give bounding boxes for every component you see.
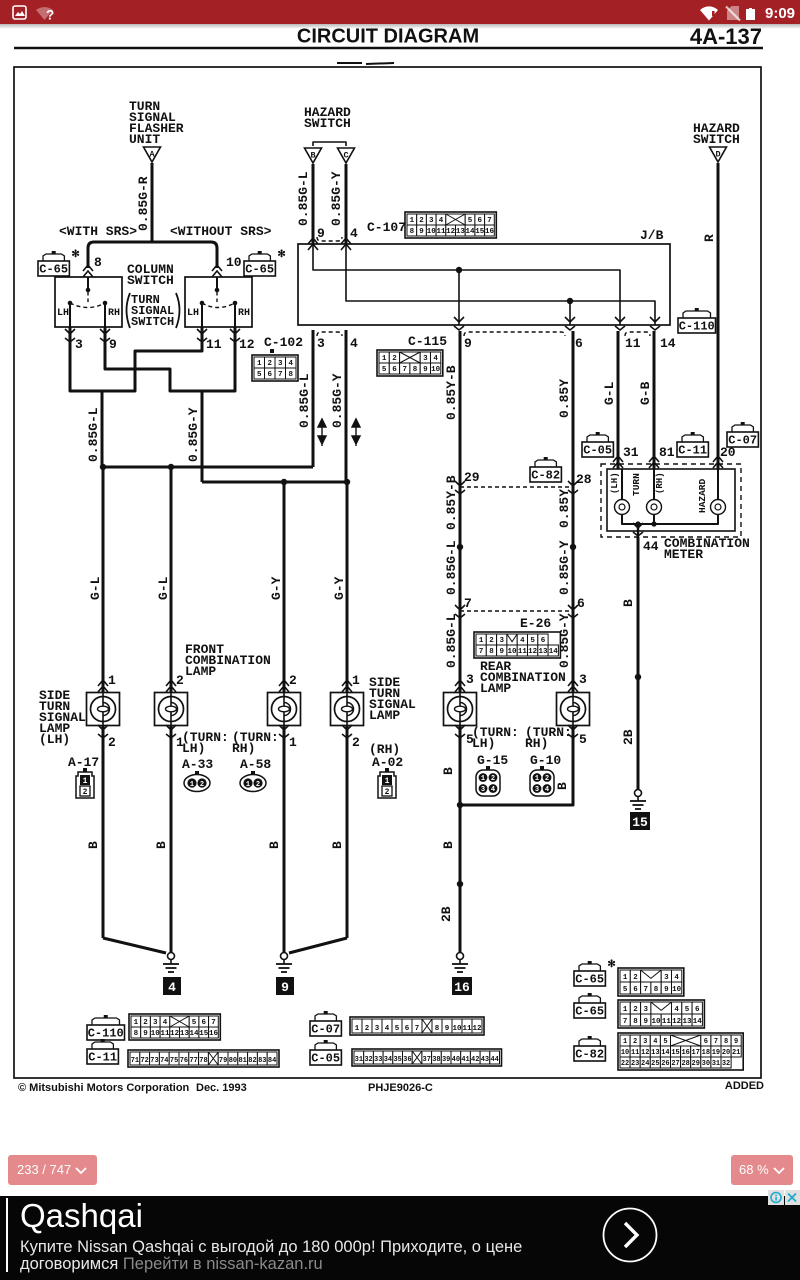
svg-text:26: 26 <box>661 1060 669 1068</box>
svg-text:37: 37 <box>423 1056 431 1064</box>
svg-text:2: 2 <box>176 673 184 688</box>
svg-text:10: 10 <box>431 366 441 374</box>
svg-text:6: 6 <box>267 371 272 379</box>
svg-text:1: 1 <box>257 360 262 368</box>
svg-text:5: 5 <box>685 1006 690 1014</box>
svg-text:11: 11 <box>436 228 446 236</box>
svg-text:METER: METER <box>664 547 703 562</box>
svg-text:1: 1 <box>289 735 297 750</box>
svg-text:3: 3 <box>535 786 539 794</box>
svg-text:E-26: E-26 <box>520 616 551 631</box>
svg-text:4: 4 <box>350 336 358 351</box>
svg-text:15: 15 <box>475 228 485 236</box>
svg-text:5: 5 <box>530 637 535 645</box>
svg-text:81: 81 <box>659 445 675 460</box>
svg-text:C-11: C-11 <box>678 444 707 458</box>
continuation arrows <box>318 419 326 446</box>
svg-text:LH: LH <box>57 308 69 319</box>
dashed E-26 line <box>460 610 573 612</box>
J/B exit 9 <box>458 270 460 325</box>
svg-text:0.85G-L: 0.85G-L <box>297 373 312 428</box>
svg-text:0.85G-Y: 0.85G-Y <box>557 540 572 595</box>
svg-text:6: 6 <box>477 217 482 225</box>
svg-text:SWITCH: SWITCH <box>693 132 740 147</box>
svg-text:2: 2 <box>489 637 494 645</box>
svg-text:12: 12 <box>446 228 456 236</box>
wire B below lamp <box>346 726 349 938</box>
svg-text:RH): RH) <box>232 741 255 756</box>
svg-text:0.85G-L: 0.85G-L <box>444 613 459 668</box>
svg-text:4: 4 <box>520 637 525 645</box>
wire pin11 crossover <box>135 340 202 391</box>
svg-text:LH: LH <box>187 308 199 319</box>
connector C-07 bottom <box>315 1014 336 1021</box>
svg-text:23: 23 <box>631 1060 639 1068</box>
svg-text:40: 40 <box>452 1056 460 1064</box>
svg-text:LH): LH) <box>472 736 495 751</box>
svg-text:ADDED: ADDED <box>725 1080 764 1092</box>
svg-text:1: 1 <box>481 775 485 783</box>
hazard bracket <box>313 142 346 146</box>
connector C-65 left <box>43 254 64 261</box>
svg-text:9: 9 <box>423 366 428 374</box>
svg-text:19: 19 <box>712 1049 720 1057</box>
svg-text:38: 38 <box>432 1056 440 1064</box>
wire B to ground 16 <box>459 805 462 953</box>
svg-text:3: 3 <box>643 1006 648 1014</box>
svg-text:12: 12 <box>641 1049 649 1057</box>
svg-text:29: 29 <box>692 1060 700 1068</box>
svg-text:<WITH SRS>: <WITH SRS> <box>59 224 137 239</box>
svg-text:10: 10 <box>226 255 242 270</box>
front lamp at x=347 <box>342 680 352 692</box>
wire G-L front <box>170 467 173 692</box>
switch pin 11 <box>201 327 204 340</box>
svg-text:3: 3 <box>278 360 283 368</box>
svg-text:12: 12 <box>170 1030 180 1038</box>
svg-text:G-Y: G-Y <box>269 576 284 600</box>
svg-text:10: 10 <box>452 1025 462 1033</box>
svg-text:74: 74 <box>160 1057 168 1065</box>
svg-text:71: 71 <box>131 1057 139 1065</box>
svg-text:31: 31 <box>623 445 639 460</box>
svg-text:C-07: C-07 <box>728 434 757 448</box>
svg-text:4: 4 <box>288 360 293 368</box>
left merge bracket <box>70 388 135 391</box>
meter lamp hazard <box>717 469 719 500</box>
svg-text:SWITCH: SWITCH <box>127 273 174 288</box>
svg-text:C-110: C-110 <box>679 320 715 334</box>
svg-text:15: 15 <box>199 1030 209 1038</box>
svg-text:14: 14 <box>661 1049 669 1057</box>
ad arrow button <box>598 1203 662 1267</box>
svg-text:14: 14 <box>693 1018 703 1026</box>
svg-text:2: 2 <box>491 775 495 783</box>
svg-text:6: 6 <box>201 1019 206 1027</box>
wire pin12 down <box>234 340 237 391</box>
svg-text:2: 2 <box>352 735 360 750</box>
svg-text:15: 15 <box>671 1049 679 1057</box>
svg-text:6: 6 <box>695 1006 700 1014</box>
front lamp at x=171 <box>166 680 176 692</box>
svg-text:B: B <box>330 841 345 849</box>
svg-text:✻: ✻ <box>71 249 79 261</box>
svg-text:RH: RH <box>238 308 250 319</box>
right merge bracket <box>170 388 235 391</box>
wire G-Y front <box>346 482 349 692</box>
svg-text:2B: 2B <box>621 729 636 745</box>
svg-text:3: 3 <box>317 336 325 351</box>
svg-text:2: 2 <box>365 1025 370 1033</box>
svg-text:5: 5 <box>468 217 473 225</box>
svg-text:A-17: A-17 <box>68 755 99 770</box>
wire G-L front <box>102 467 105 692</box>
svg-text:A: A <box>149 150 155 160</box>
connector C-65 bottom 1 <box>579 964 600 971</box>
connector C-65 bottom 2 <box>579 996 600 1003</box>
svg-text:0.85Y-B: 0.85Y-B <box>444 365 459 420</box>
svg-text:28: 28 <box>681 1060 689 1068</box>
svg-text:8: 8 <box>489 648 494 656</box>
svg-text:4: 4 <box>385 1025 390 1033</box>
svg-text:3: 3 <box>153 1019 158 1027</box>
wifi alert icon <box>700 6 718 20</box>
svg-text:C-115: C-115 <box>408 334 447 349</box>
svg-text:2B: 2B <box>439 906 454 922</box>
rear lamp at x=460 <box>455 680 465 692</box>
svg-text:2: 2 <box>267 360 272 368</box>
svg-text:3: 3 <box>481 786 485 794</box>
svg-text:HAZARD: HAZARD <box>697 478 708 513</box>
svg-text:B: B <box>154 841 169 849</box>
connector C-82 <box>535 460 556 467</box>
svg-text:0.85G-Y: 0.85G-Y <box>186 407 201 462</box>
svg-text:6: 6 <box>577 596 585 611</box>
svg-text:CIRCUIT DIAGRAM: CIRCUIT DIAGRAM <box>297 26 479 48</box>
svg-text:LAMP: LAMP <box>369 708 400 723</box>
battery icon <box>749 8 752 10</box>
svg-text:0.85Y: 0.85Y <box>557 489 572 528</box>
svg-text:7: 7 <box>278 371 283 379</box>
svg-text:77: 77 <box>189 1057 197 1065</box>
connector C-82 bottom <box>579 1039 600 1046</box>
svg-text:34: 34 <box>384 1056 392 1064</box>
svg-text:C-05: C-05 <box>311 1052 340 1066</box>
svg-text:41: 41 <box>461 1056 469 1064</box>
page nav chip left <box>8 1155 97 1185</box>
svg-text:0.85G-Y: 0.85G-Y <box>329 171 344 226</box>
flasher unit pin A <box>144 147 161 162</box>
column switch (without SRS) <box>185 277 252 327</box>
svg-text:4: 4 <box>653 1038 657 1046</box>
svg-text:8: 8 <box>654 986 659 994</box>
svg-text:2: 2 <box>289 673 297 688</box>
svg-text:LAMP: LAMP <box>185 664 216 679</box>
wire 0.85G-R from flasher A <box>151 163 154 242</box>
svg-text:2: 2 <box>108 735 116 750</box>
wire G-Y front <box>283 482 286 692</box>
svg-text:5: 5 <box>623 986 628 994</box>
svg-text:12: 12 <box>472 1025 482 1033</box>
svg-text:14: 14 <box>549 648 559 656</box>
svg-text:11: 11 <box>518 648 528 656</box>
svg-text:1: 1 <box>83 777 88 786</box>
svg-text:<WITHOUT SRS>: <WITHOUT SRS> <box>170 224 272 239</box>
svg-text:14: 14 <box>660 336 676 351</box>
svg-text:10: 10 <box>672 986 682 994</box>
svg-text:0.85G-Y: 0.85G-Y <box>330 373 345 428</box>
svg-text:9: 9 <box>464 336 472 351</box>
svg-text:3: 3 <box>75 337 83 352</box>
svg-text:3: 3 <box>643 1038 647 1046</box>
svg-text:8: 8 <box>413 366 418 374</box>
svg-text:B: B <box>86 841 101 849</box>
svg-text:C-65: C-65 <box>245 263 274 277</box>
svg-text:G-L: G-L <box>602 381 617 405</box>
svg-text:10: 10 <box>427 228 437 236</box>
wifi question icon <box>36 7 53 20</box>
svg-text:1: 1 <box>355 1025 360 1033</box>
svg-text:D: D <box>715 150 720 160</box>
svg-text:C-110: C-110 <box>88 1027 124 1041</box>
svg-text:10: 10 <box>621 1049 629 1057</box>
svg-text:1: 1 <box>623 1038 627 1046</box>
svg-text:7: 7 <box>415 1025 420 1033</box>
svg-text:(LH): (LH) <box>610 472 620 494</box>
zoom chip right <box>731 1155 793 1185</box>
wire G-L pin11 <box>617 331 620 469</box>
svg-text:2: 2 <box>633 974 638 982</box>
svg-text:8: 8 <box>134 1030 139 1038</box>
svg-text:13: 13 <box>180 1030 190 1038</box>
hazard pin D <box>710 147 727 162</box>
ad banner <box>0 1196 800 1280</box>
svg-text:84: 84 <box>268 1057 276 1065</box>
svg-text:7: 7 <box>643 986 648 994</box>
svg-text:12: 12 <box>239 337 255 352</box>
wire B below lamp <box>170 726 173 953</box>
svg-text:✻: ✻ <box>607 959 615 971</box>
svg-text:C-82: C-82 <box>575 1048 604 1062</box>
connector C-11 <box>682 435 703 442</box>
svg-text:8: 8 <box>633 1018 638 1026</box>
svg-text:9: 9 <box>109 337 117 352</box>
svg-text:10: 10 <box>151 1030 161 1038</box>
svg-text:6: 6 <box>405 1025 410 1033</box>
connector C-65 right <box>249 254 270 261</box>
wire 0.85G-Y from C <box>345 164 348 244</box>
svg-text:2: 2 <box>633 1038 637 1046</box>
svg-text:G-L: G-L <box>88 576 103 600</box>
svg-text:C-65: C-65 <box>39 263 68 277</box>
page border <box>14 67 761 1078</box>
bracket to column switch <box>88 242 217 268</box>
svg-text:B: B <box>267 841 282 849</box>
rear lamp at x=573 <box>568 680 578 692</box>
ground right front <box>289 938 347 953</box>
svg-text:10: 10 <box>508 648 518 656</box>
svg-text:27: 27 <box>671 1060 679 1068</box>
svg-text:5: 5 <box>257 371 262 379</box>
svg-text:25: 25 <box>651 1060 659 1068</box>
wire B below lamp <box>102 726 105 938</box>
svg-text:7: 7 <box>714 1038 718 1046</box>
svg-text:80: 80 <box>229 1057 237 1065</box>
wire pin9 crossover <box>105 340 170 391</box>
svg-text:75: 75 <box>170 1057 178 1065</box>
svg-text:83: 83 <box>258 1057 266 1065</box>
svg-text:4: 4 <box>674 974 679 982</box>
svg-text:6: 6 <box>704 1038 708 1046</box>
wire B below lamp <box>283 726 286 953</box>
J/B exit 6 <box>569 301 571 325</box>
wire 0.85Y <box>572 331 575 692</box>
svg-text:A-33: A-33 <box>182 757 213 772</box>
svg-text:LAMP: LAMP <box>480 681 511 696</box>
svg-text:11: 11 <box>206 337 222 352</box>
svg-text:B: B <box>441 767 456 775</box>
svg-text:24: 24 <box>641 1060 649 1068</box>
svg-text:C-11: C-11 <box>88 1051 117 1065</box>
svg-text:SWITCH: SWITCH <box>304 116 351 131</box>
svg-text:SWITCH: SWITCH <box>131 315 174 329</box>
svg-text:C-82: C-82 <box>531 469 560 483</box>
no sim icon <box>727 6 739 20</box>
svg-text:3: 3 <box>423 355 428 363</box>
svg-text:12: 12 <box>528 648 538 656</box>
svg-text:3: 3 <box>375 1025 380 1033</box>
svg-text:9: 9 <box>445 1025 450 1033</box>
svg-text:7: 7 <box>402 366 407 374</box>
svg-text:72: 72 <box>140 1057 148 1065</box>
svg-text:2: 2 <box>419 217 424 225</box>
svg-text:1: 1 <box>108 673 116 688</box>
svg-text:16: 16 <box>209 1030 219 1038</box>
svg-text:10: 10 <box>652 1018 662 1026</box>
svg-text:9: 9 <box>317 226 325 241</box>
svg-text:3: 3 <box>664 974 669 982</box>
svg-text:7: 7 <box>464 596 472 611</box>
svg-text:0.85G-L: 0.85G-L <box>444 540 459 595</box>
svg-text:2: 2 <box>545 775 549 783</box>
svg-text:A-58: A-58 <box>240 757 271 772</box>
connector C-11 bottom <box>92 1042 113 1049</box>
svg-text:12: 12 <box>672 1018 682 1026</box>
svg-text:2: 2 <box>633 1006 638 1014</box>
svg-text:1: 1 <box>382 355 387 363</box>
hazard pin B <box>305 148 322 163</box>
svg-text:7: 7 <box>623 1018 628 1026</box>
svg-text:33: 33 <box>374 1056 382 1064</box>
svg-text:✻: ✻ <box>277 249 285 261</box>
svg-text:13: 13 <box>456 228 466 236</box>
svg-text:1: 1 <box>385 777 390 786</box>
svg-text:0.85G-L: 0.85G-L <box>296 171 311 226</box>
svg-text:39: 39 <box>442 1056 450 1064</box>
front lamp at x=284 <box>279 680 289 692</box>
svg-text:11: 11 <box>160 1030 170 1038</box>
svg-text:2: 2 <box>385 788 390 797</box>
wire 0.85G-L from B <box>312 164 315 244</box>
svg-text:76: 76 <box>180 1057 188 1065</box>
svg-text:0.85Y-B: 0.85Y-B <box>444 475 459 530</box>
G-Y distribution wire <box>202 481 347 484</box>
svg-text:1: 1 <box>246 781 250 789</box>
wire B from meter <box>637 537 640 790</box>
wire G-B pin14 <box>653 331 656 469</box>
J/B bus wire 2 <box>346 244 655 325</box>
svg-text:16: 16 <box>485 228 495 236</box>
svg-text:11: 11 <box>625 336 641 351</box>
meter common wire <box>622 514 718 524</box>
svg-text:4: 4 <box>674 1006 679 1014</box>
G-L distribution wire <box>103 466 313 469</box>
svg-text:0.85Y: 0.85Y <box>557 379 572 418</box>
svg-text:RH): RH) <box>525 736 548 751</box>
column switch (with SRS) <box>55 277 122 327</box>
svg-text:G-Y: G-Y <box>332 576 347 600</box>
svg-text:RH: RH <box>108 308 120 319</box>
svg-text:5: 5 <box>579 732 587 747</box>
svg-text:B: B <box>555 782 570 790</box>
svg-text:B: B <box>441 841 456 849</box>
svg-text:7: 7 <box>487 217 492 225</box>
svg-text:J/B: J/B <box>640 228 664 243</box>
svg-text:16: 16 <box>681 1049 689 1057</box>
svg-text:9: 9 <box>143 1030 148 1038</box>
title rule <box>14 47 763 50</box>
svg-text:11: 11 <box>662 1018 672 1026</box>
svg-text:78: 78 <box>199 1057 207 1065</box>
svg-text:R: R <box>702 234 717 242</box>
svg-text:1: 1 <box>190 781 194 789</box>
svg-text:1: 1 <box>352 673 360 688</box>
svg-text:C-102: C-102 <box>264 335 303 350</box>
svg-text:2: 2 <box>256 781 260 789</box>
switch pin 3 <box>69 327 72 340</box>
svg-text:13: 13 <box>651 1049 659 1057</box>
combination meter dashed box <box>601 464 741 537</box>
switch pin 9 <box>104 327 107 340</box>
svg-text:4: 4 <box>545 786 549 794</box>
scan marks <box>337 62 362 64</box>
svg-text:8: 8 <box>288 371 293 379</box>
svg-text:LH): LH) <box>182 741 205 756</box>
svg-text:2: 2 <box>143 1019 148 1027</box>
svg-text:14: 14 <box>190 1030 200 1038</box>
svg-text:15: 15 <box>632 815 648 830</box>
svg-text:22: 22 <box>621 1060 629 1068</box>
ground left front <box>103 938 166 953</box>
svg-text:8: 8 <box>94 255 102 270</box>
svg-text:44: 44 <box>490 1056 498 1064</box>
svg-text:6: 6 <box>541 637 546 645</box>
svg-text:13: 13 <box>682 1018 692 1026</box>
svg-text:6: 6 <box>633 986 638 994</box>
svg-text:20: 20 <box>722 1049 730 1057</box>
svg-text:8: 8 <box>724 1038 728 1046</box>
svg-text:TURN: TURN <box>631 473 642 496</box>
svg-text:9: 9 <box>734 1038 738 1046</box>
svg-text:14: 14 <box>466 228 476 236</box>
svg-text:9: 9 <box>499 648 504 656</box>
svg-text:5: 5 <box>663 1038 667 1046</box>
svg-text:79: 79 <box>219 1057 227 1065</box>
svg-text:31: 31 <box>355 1056 363 1064</box>
meter lamp RH <box>653 469 655 500</box>
svg-text:11: 11 <box>462 1025 472 1033</box>
svg-text:4: 4 <box>439 217 444 225</box>
